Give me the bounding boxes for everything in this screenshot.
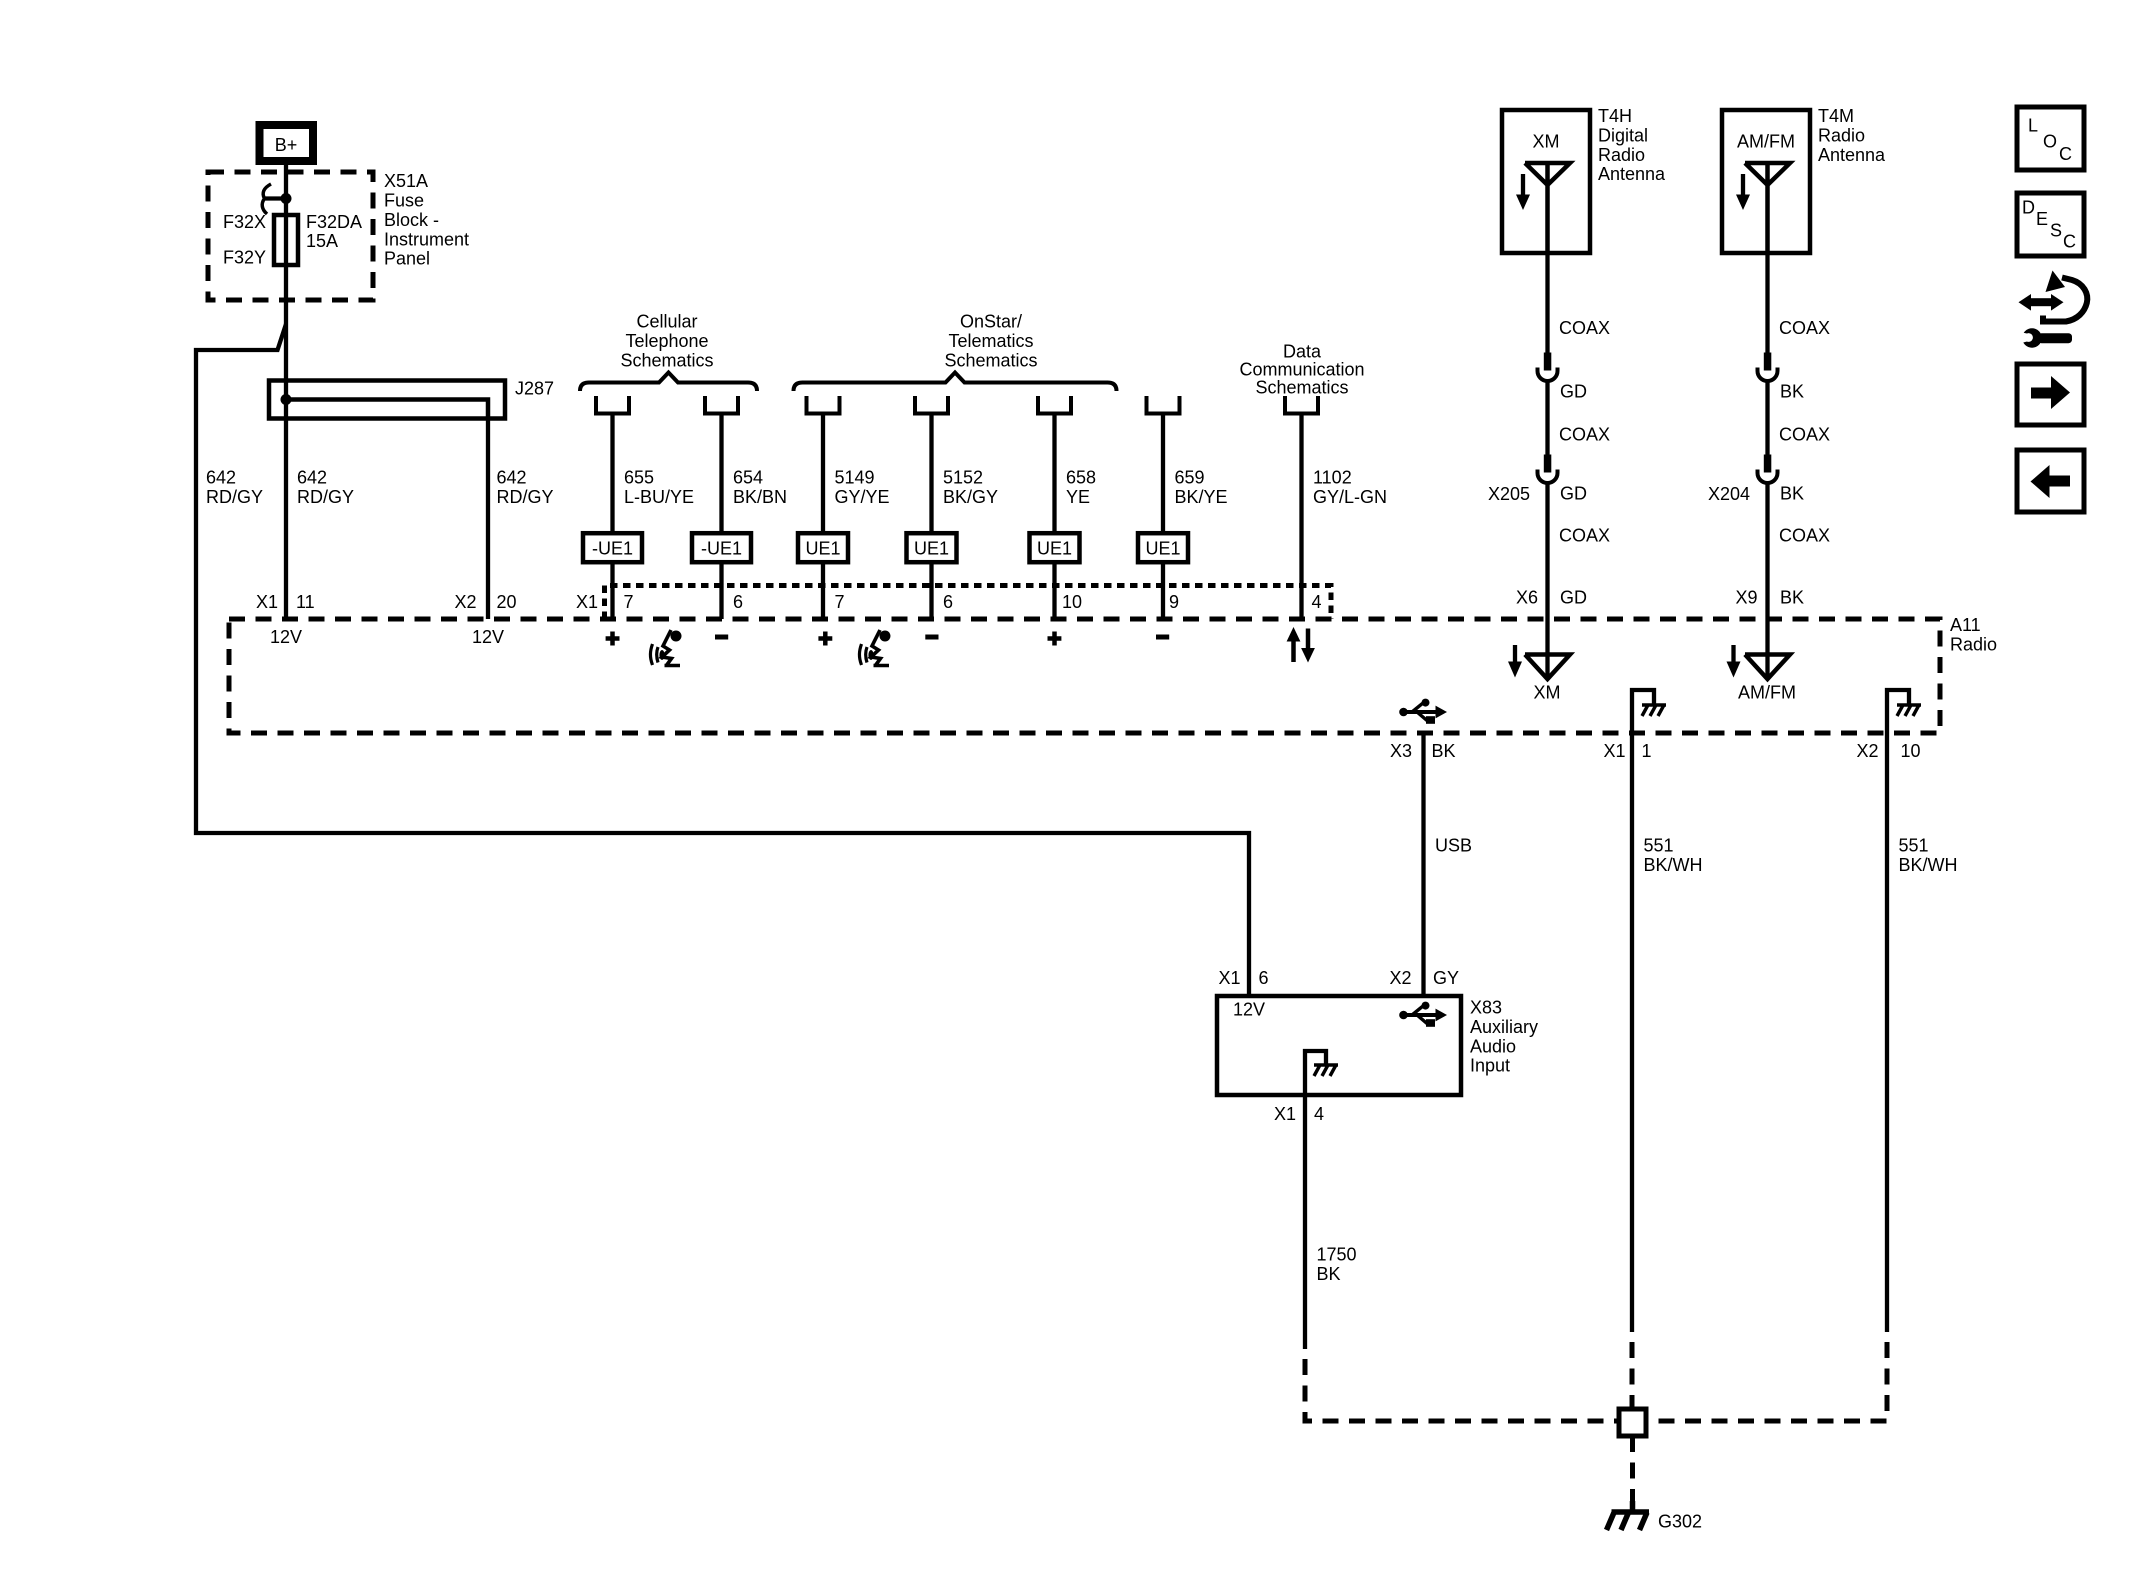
antenna symbol XM (1525, 163, 1570, 253)
label X205 GD (1488, 484, 1587, 504)
pin label X1 11 (256, 592, 315, 612)
svg-text:7: 7 (624, 592, 634, 612)
battery positive symbol B+ (260, 125, 314, 161)
svg-text:20: 20 (497, 592, 517, 612)
wire label 5152 BK/GY (943, 468, 998, 507)
svg-text:BK: BK (1317, 1264, 1341, 1284)
wire label 1102 GY/L-GN (1313, 468, 1387, 507)
svg-text:J287: J287 (515, 379, 554, 399)
svg-text:UE1: UE1 (1145, 539, 1180, 559)
svg-text:Block -: Block - (384, 210, 439, 230)
svg-text:Radio: Radio (1818, 125, 1865, 145)
svg-text:A11: A11 (1950, 615, 1981, 635)
svg-text:UE1: UE1 (914, 539, 949, 559)
wire label 5149 GY/YE (835, 468, 890, 507)
svg-text:GD: GD (1560, 382, 1587, 402)
microphone speaker icon b (859, 630, 890, 666)
svg-text:Telematics: Telematics (948, 331, 1033, 351)
wire B+ down through fuse to J287 (284, 165, 288, 400)
inline connector UE1 c (798, 533, 848, 562)
wire XM into radio (1545, 619, 1549, 677)
data down arrow (1301, 629, 1315, 663)
pin label X1 1 (1603, 741, 1651, 761)
radio AM/FM antenna input triangle (1745, 655, 1790, 680)
off-page connector symbol 658 (1038, 396, 1071, 414)
svg-text:USB: USB (1435, 836, 1472, 856)
svg-text:658: 658 (1066, 468, 1096, 488)
ground splice junction box (1619, 1409, 1646, 1436)
coax inline connector socket (1538, 368, 1558, 382)
svg-text:654: 654 (733, 468, 763, 488)
label X51A Fuse Block - Instrument Panel (384, 171, 469, 269)
svg-text:Instrument: Instrument (384, 229, 469, 249)
USB icon in aux box (1399, 1002, 1447, 1027)
wire label 659 BK/YE (1175, 468, 1228, 507)
fuse block X51A dashed outline (208, 172, 373, 300)
ground wire 551 from X1 1 (1630, 733, 1634, 1332)
svg-text:X3: X3 (1390, 741, 1412, 761)
svg-text:F32X: F32X (223, 212, 266, 232)
svg-text:X204: X204 (1708, 484, 1750, 504)
svg-text:C: C (2063, 232, 2076, 252)
radio A11 dashed outline (229, 619, 1940, 733)
wire 654 (719, 415, 723, 533)
pin label X6 GD (1516, 588, 1587, 608)
wire 658 (1052, 415, 1056, 533)
svg-text:9: 9 (1169, 592, 1179, 612)
toolbar button DESC (2017, 193, 2084, 256)
svg-text:BK: BK (1780, 588, 1804, 608)
toolbar icon diagnostics wrench (2012, 328, 2072, 348)
aux internal ground hook (1305, 1051, 1338, 1095)
svg-text:Communication: Communication (1239, 359, 1364, 379)
svg-text:X2: X2 (1389, 968, 1411, 988)
svg-text:551: 551 (1644, 836, 1674, 856)
svg-text:X51A: X51A (384, 171, 428, 191)
fuse terminal hook and junction dot (262, 184, 291, 214)
antenna module T4M box (1722, 110, 1810, 253)
svg-text:11: 11 (296, 592, 315, 612)
radio XM antenna input triangle (1525, 655, 1570, 680)
coax inline connector plug (1764, 353, 1772, 371)
wire label 642 RD/GY center (297, 468, 354, 507)
svg-text:X1: X1 (576, 592, 598, 612)
svg-text:12V: 12V (472, 627, 504, 647)
antenna module T4H box (1502, 110, 1590, 253)
svg-text:COAX: COAX (1779, 526, 1830, 546)
svg-text:AM/FM: AM/FM (1738, 683, 1796, 703)
svg-text:COAX: COAX (1779, 318, 1830, 338)
wire label 654 BK/BN (733, 468, 787, 507)
pin label X3 BK (1390, 741, 1456, 761)
wire 5152 (929, 415, 933, 533)
header Data Communication Schematics (1239, 341, 1364, 397)
coax inline connector socket (1758, 368, 1778, 382)
svg-text:551: 551 (1899, 836, 1929, 856)
coax inline connector socket X205 (1538, 470, 1558, 484)
svg-text:Schematics: Schematics (944, 350, 1037, 370)
svg-text:X83: X83 (1470, 998, 1502, 1018)
wire UE1 d to radio (929, 562, 933, 619)
header OnStar/Telematics Schematics (944, 312, 1037, 371)
svg-text:Auxiliary: Auxiliary (1470, 1017, 1538, 1037)
wire UE1 e to radio (1052, 562, 1056, 619)
ground lead below junction (1630, 1436, 1635, 1507)
wire label 642 RD/GY left (206, 468, 263, 507)
svg-text:B+: B+ (275, 135, 298, 155)
wire AM/FM into radio (1765, 619, 1769, 677)
svg-text:1: 1 (1642, 741, 1652, 761)
svg-text:BK: BK (1780, 484, 1804, 504)
svg-text:5152: 5152 (943, 468, 983, 488)
svg-text:BK: BK (1432, 741, 1456, 761)
svg-text:642: 642 (497, 468, 527, 488)
svg-text:S: S (2050, 221, 2062, 241)
svg-text:BK/YE: BK/YE (1175, 487, 1228, 507)
svg-text:Cellular: Cellular (636, 312, 697, 332)
svg-text:COAX: COAX (1559, 425, 1610, 445)
minus sign pin 9 (1156, 635, 1169, 640)
plus sign pin 10 (1048, 632, 1062, 646)
coax wire AM/FM segment 3 (1765, 484, 1769, 619)
svg-text:BK/WH: BK/WH (1899, 855, 1958, 875)
coax wire AM/FM segment 1 (1765, 253, 1769, 353)
svg-text:Telephone: Telephone (625, 331, 708, 351)
ground symbol G302 (1607, 1501, 1650, 1530)
toolbar icon diagnostics swoosh arrow (2043, 271, 2087, 322)
svg-text:RD/GY: RD/GY (497, 487, 554, 507)
svg-text:BK/GY: BK/GY (943, 487, 998, 507)
label X83 Auxiliary Audio Input (1470, 998, 1538, 1076)
wire label 655 L-BU/YE (624, 468, 694, 507)
inline connector UE1 d (907, 533, 957, 562)
svg-text:15A: 15A (306, 231, 338, 251)
wire label 1750 BK (1317, 1245, 1357, 1284)
svg-text:Schematics: Schematics (620, 350, 713, 370)
svg-text:C: C (2059, 144, 2072, 164)
receive arrow in T4M (1736, 174, 1750, 210)
svg-text:BK: BK (1780, 382, 1804, 402)
svg-text:X1: X1 (1218, 968, 1240, 988)
pin label X2 GY (1389, 968, 1459, 988)
off-page connector symbol 1102 (1285, 396, 1318, 414)
svg-text:1102: 1102 (1313, 468, 1352, 488)
off-page connector symbol 5149 (807, 396, 840, 414)
svg-text:OnStar/: OnStar/ (960, 312, 1022, 332)
svg-text:GY: GY (1433, 968, 1459, 988)
svg-text:YE: YE (1066, 487, 1090, 507)
header Cellular Telephone Schematics (620, 312, 713, 371)
ground wire 551 from X2 10 (1885, 733, 1889, 1332)
radio XM receive arrow (1508, 645, 1522, 678)
svg-text:5149: 5149 (835, 468, 875, 488)
svg-text:4: 4 (1314, 1104, 1324, 1124)
svg-text:12V: 12V (270, 627, 302, 647)
svg-text:6: 6 (943, 592, 953, 612)
minus sign pin 6 (715, 635, 728, 640)
svg-text:GD: GD (1560, 588, 1587, 608)
svg-text:X9: X9 (1735, 588, 1757, 608)
inline connector -UE1 b (692, 533, 751, 562)
radio internal ground hook X2 10 (1887, 690, 1921, 733)
svg-text:XM: XM (1533, 132, 1560, 152)
coax wire AM/FM segment 2 (1765, 382, 1769, 455)
svg-text:10: 10 (1901, 741, 1921, 761)
coax inline connector plug X204 (1764, 455, 1772, 473)
svg-text:X2: X2 (1856, 741, 1878, 761)
wire 5149 (821, 415, 825, 533)
ground wire 551 left dashed (1630, 1342, 1635, 1409)
svg-text:T4M: T4M (1818, 106, 1854, 126)
svg-text:Schematics: Schematics (1255, 377, 1348, 397)
svg-text:RD/GY: RD/GY (206, 487, 263, 507)
svg-text:Digital: Digital (1598, 125, 1648, 145)
wire 655 (610, 415, 614, 533)
inline connector -UE1 a (583, 533, 642, 562)
receive arrow in T4H (1516, 174, 1530, 210)
radio internal ground hook X1 1 (1632, 690, 1666, 733)
wire J287 to radio pin X2 20 (486, 419, 490, 619)
brace cellular (580, 373, 757, 392)
svg-text:X1: X1 (256, 592, 278, 612)
coax inline connector socket X204 (1758, 470, 1778, 484)
svg-text:-UE1: -UE1 (592, 539, 633, 559)
wire label 551 BK/WH right (1899, 836, 1958, 875)
splice pack J287 (269, 381, 505, 420)
coax wire XM segment 2 (1545, 382, 1549, 455)
toolbar button LOC (2017, 107, 2084, 170)
toolbar button forward arrow (2017, 364, 2084, 425)
label T4M Radio Antenna (1818, 106, 1886, 165)
svg-text:T4H: T4H (1598, 106, 1632, 126)
svg-text:COAX: COAX (1559, 318, 1610, 338)
svg-text:GD: GD (1560, 484, 1587, 504)
svg-text:4: 4 (1312, 592, 1322, 612)
svg-text:642: 642 (206, 468, 236, 488)
svg-text:6: 6 (1259, 968, 1269, 988)
ground wire 1750 dashed (1305, 1359, 1619, 1421)
USB icon in radio (1399, 699, 1447, 724)
wire J287 to radio pin X1 11 (284, 400, 288, 619)
brace onstar (794, 373, 1117, 392)
ground wire 551 right dashed (1646, 1342, 1887, 1421)
coax wire XM segment 1 (1545, 253, 1549, 353)
svg-text:X6: X6 (1516, 588, 1538, 608)
ground wire 1750 solid (1303, 1095, 1307, 1349)
wire UE1 c to radio (821, 562, 825, 619)
radio AM/FM receive arrow (1727, 645, 1741, 678)
svg-text:Radio: Radio (1598, 145, 1645, 165)
wire label 658 YE (1066, 468, 1096, 507)
minus sign pin 6 onstar (925, 635, 938, 640)
svg-text:642: 642 (297, 468, 327, 488)
svg-text:XM: XM (1534, 683, 1561, 703)
coax inline connector plug X205 (1544, 455, 1552, 473)
pin label X1 4 (1274, 1104, 1324, 1124)
svg-text:AM/FM: AM/FM (1737, 132, 1795, 152)
label X204 BK (1708, 484, 1804, 504)
svg-text:Radio: Radio (1950, 634, 1997, 654)
label A11 Radio (1950, 615, 1997, 654)
svg-text:L-BU/YE: L-BU/YE (624, 487, 694, 507)
wire UE1 f to radio (1161, 562, 1165, 619)
svg-text:Antenna: Antenna (1598, 164, 1666, 184)
svg-text:X205: X205 (1488, 484, 1530, 504)
svg-text:X2: X2 (454, 592, 476, 612)
svg-text:F32Y: F32Y (223, 247, 266, 267)
toolbar icon diagnostics double arrow (2019, 294, 2064, 311)
data up arrow (1287, 627, 1301, 662)
plus sign pin 7 onstar (818, 632, 832, 646)
svg-text:UE1: UE1 (805, 539, 840, 559)
svg-text:GY/YE: GY/YE (835, 487, 890, 507)
svg-text:655: 655 (624, 468, 654, 488)
svg-text:6: 6 (733, 592, 743, 612)
pin label X9 BK (1735, 588, 1804, 608)
svg-text:RD/GY: RD/GY (297, 487, 354, 507)
svg-text:COAX: COAX (1779, 425, 1830, 445)
wire -UE1 b to radio (719, 562, 723, 619)
off-page connector symbol 654 (705, 396, 738, 414)
svg-text:L: L (2028, 116, 2038, 136)
off-page connector symbol 659 (1147, 396, 1180, 414)
svg-text:Fuse: Fuse (384, 191, 424, 211)
label F32DA 15A (306, 212, 362, 251)
svg-text:1750: 1750 (1317, 1245, 1357, 1265)
svg-text:BK/WH: BK/WH (1644, 855, 1703, 875)
svg-text:X1: X1 (1274, 1104, 1296, 1124)
auxiliary audio input X83 box (1217, 996, 1461, 1095)
svg-text:BK/BN: BK/BN (733, 487, 787, 507)
off-page connector symbol 5152 (915, 396, 948, 414)
antenna symbol AM/FM (1745, 163, 1790, 253)
wire label 551 BK/WH (1644, 836, 1703, 875)
label T4H Digital Radio Antenna (1598, 106, 1666, 184)
svg-text:10: 10 (1062, 592, 1082, 612)
svg-text:7: 7 (835, 592, 845, 612)
wire branch from fuse output to left feed (196, 324, 1249, 996)
wire -UE1 a to radio (610, 562, 614, 619)
svg-text:Data: Data (1283, 341, 1322, 361)
toolbar button back arrow (2017, 450, 2084, 512)
svg-text:Audio: Audio (1470, 1036, 1516, 1056)
svg-text:O: O (2043, 132, 2057, 152)
svg-text:F32DA: F32DA (306, 212, 362, 232)
inline connector UE1 f (1138, 533, 1188, 562)
fuse F32DA 15A (274, 215, 298, 265)
svg-text:GY/L-GN: GY/L-GN (1313, 487, 1387, 507)
pin label X1 6 (1218, 968, 1268, 988)
svg-text:UE1: UE1 (1037, 539, 1072, 559)
svg-text:Input: Input (1470, 1056, 1510, 1076)
svg-text:12V: 12V (1233, 1000, 1265, 1020)
pin label X2 10 (1856, 741, 1920, 761)
coax inline connector plug (1544, 353, 1552, 371)
wire 1102 (1299, 415, 1303, 619)
wire USB X3 to auxiliary input (1421, 733, 1425, 996)
microphone speaker icon a (650, 630, 681, 666)
off-page connector symbol 655 (596, 396, 629, 414)
plus sign pin 7 (606, 632, 620, 646)
wire label 642 RD/GY right (497, 468, 554, 507)
connector X1 dotted outline (605, 586, 1332, 620)
svg-text:-UE1: -UE1 (701, 539, 742, 559)
wire 659 (1161, 415, 1165, 533)
svg-text:659: 659 (1175, 468, 1205, 488)
svg-text:E: E (2036, 209, 2048, 229)
pin label X2 20 (454, 592, 516, 612)
svg-text:Panel: Panel (384, 249, 430, 269)
svg-text:D: D (2022, 198, 2035, 218)
svg-text:Antenna: Antenna (1818, 145, 1886, 165)
inline connector UE1 e (1030, 533, 1080, 562)
coax wire XM segment 3 (1545, 484, 1549, 619)
svg-text:COAX: COAX (1559, 526, 1610, 546)
svg-text:X1: X1 (1603, 741, 1625, 761)
svg-text:G302: G302 (1658, 1512, 1702, 1532)
